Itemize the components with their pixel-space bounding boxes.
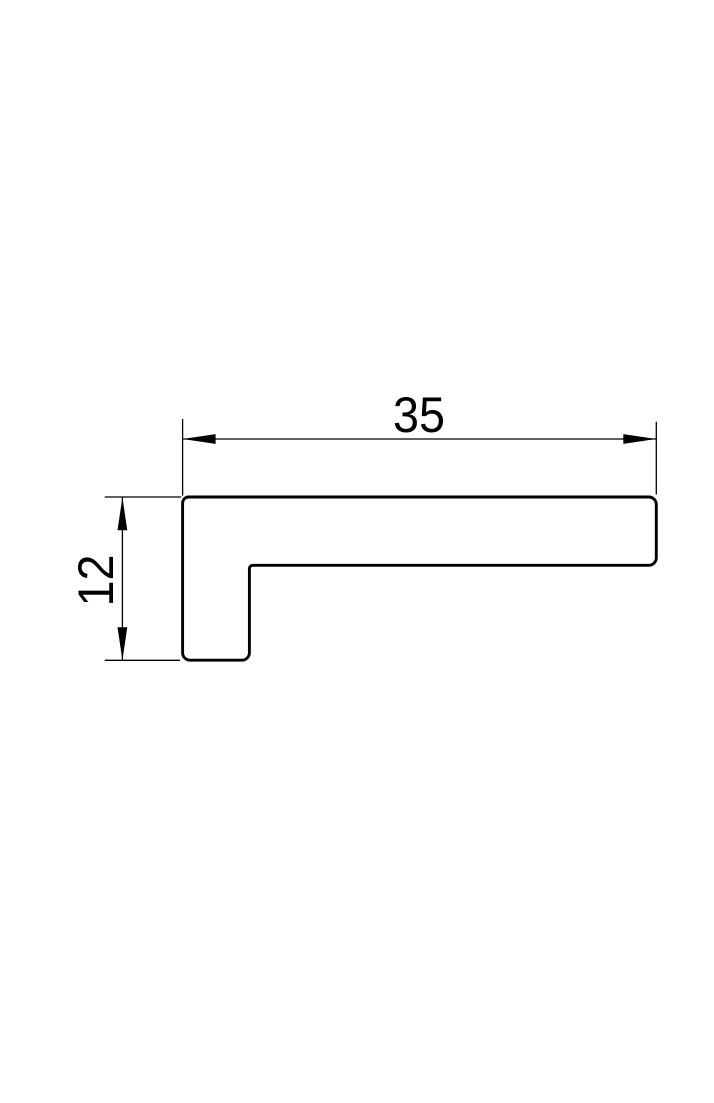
extension line right (for 35 dim) [655, 422, 657, 495]
dimension line 12 [121, 497, 123, 660]
extension line bottom (for 12 dim) [105, 659, 180, 661]
arrowhead left of 35 dim [183, 434, 216, 444]
arrowhead right of 35 dim [623, 434, 656, 444]
extension line top (for 12 dim) [105, 496, 182, 498]
extension line left (for 35 dim) [182, 419, 184, 496]
arrowhead bottom of 12 dim [118, 627, 128, 660]
arrowhead top of 12 dim [118, 497, 128, 530]
dimension line 35 [183, 438, 657, 440]
profile outline (L-shaped cross-section) [183, 497, 657, 660]
svg-text:35: 35 [393, 387, 445, 443]
svg-text:12: 12 [68, 555, 124, 607]
